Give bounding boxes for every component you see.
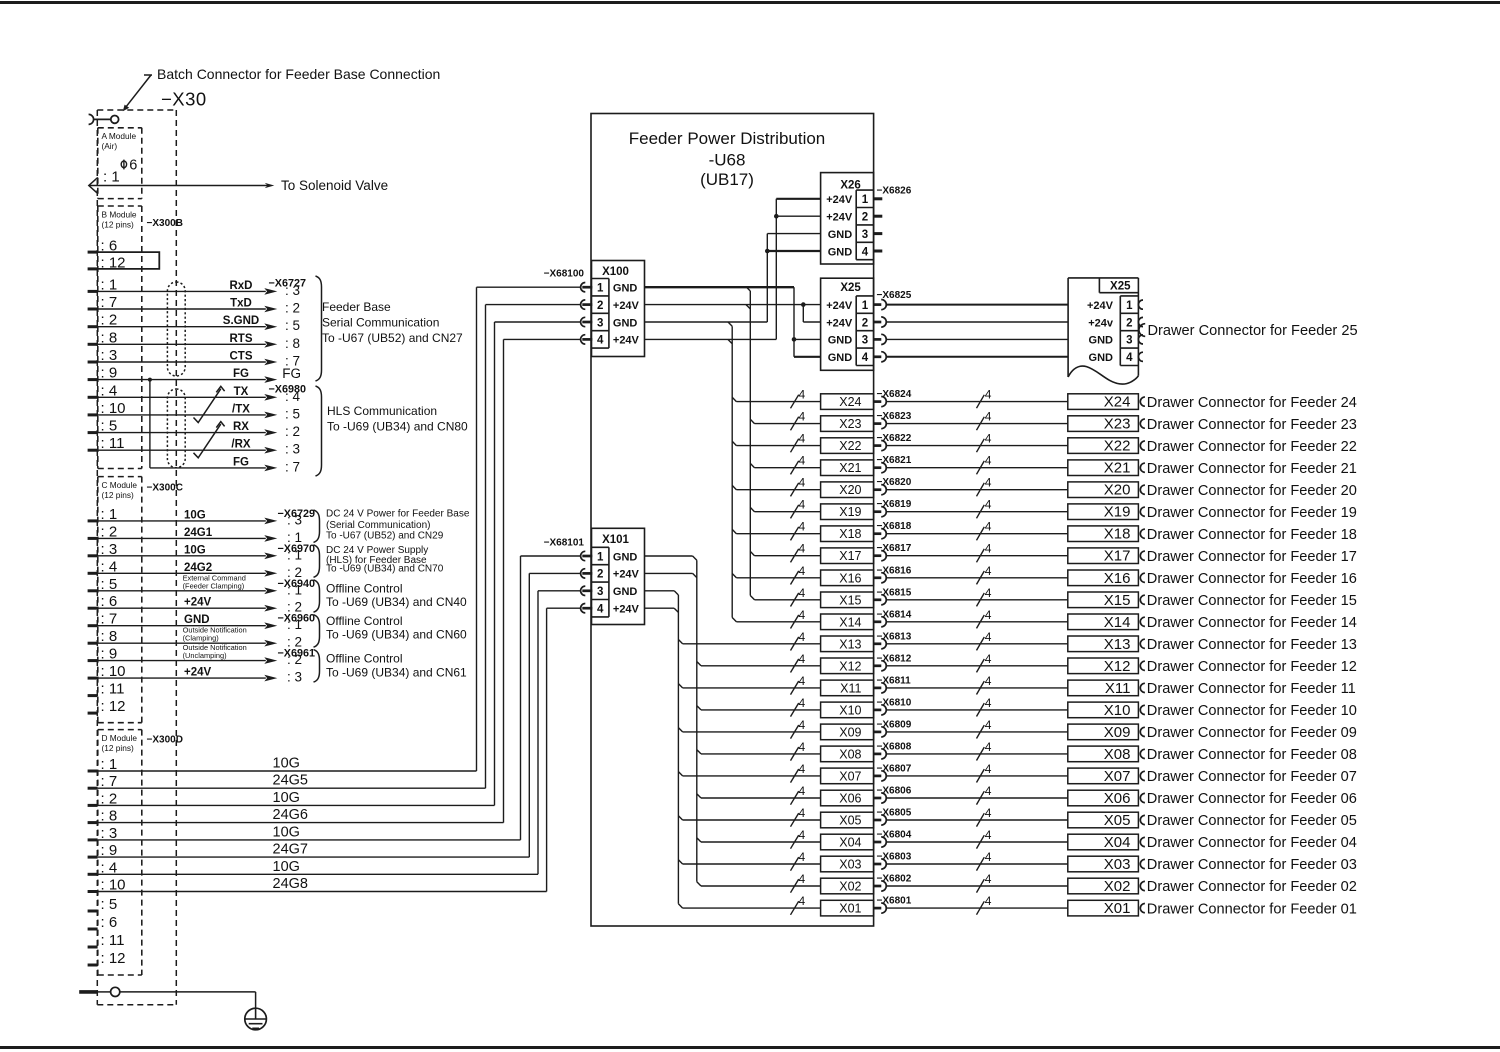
svg-text:X100: X100 <box>602 266 629 278</box>
svg-text:4: 4 <box>799 806 806 820</box>
svg-text:GND: GND <box>613 317 638 329</box>
svg-text:X06: X06 <box>839 792 861 806</box>
svg-text:X08: X08 <box>839 747 861 761</box>
svg-text:X12: X12 <box>1104 658 1131 675</box>
svg-text:−X6814: −X6814 <box>877 609 912 620</box>
svg-text:: 5: : 5 <box>101 418 118 435</box>
svg-text:X14: X14 <box>1104 614 1131 631</box>
svg-text:To -U69 (UB34) and CN40: To -U69 (UB34) and CN40 <box>326 595 467 609</box>
svg-text:2: 2 <box>862 212 868 224</box>
svg-text:24G8: 24G8 <box>273 876 308 892</box>
svg-text:Drawer Connector for Feeder 18: Drawer Connector for Feeder 18 <box>1147 527 1357 543</box>
svg-text:4: 4 <box>799 564 806 578</box>
svg-text:X20: X20 <box>839 483 861 497</box>
svg-text:Drawer Connector for Feeder 13: Drawer Connector for Feeder 13 <box>1147 637 1357 653</box>
svg-text:+24V: +24V <box>826 300 853 312</box>
svg-text:4: 4 <box>799 872 806 886</box>
svg-text:24G5: 24G5 <box>273 773 308 789</box>
svg-text:: 2: : 2 <box>101 312 118 329</box>
svg-text:2: 2 <box>597 300 603 312</box>
svg-text:−X6821: −X6821 <box>877 455 912 466</box>
svg-text:GND: GND <box>613 586 638 598</box>
svg-text:: 7: : 7 <box>101 773 118 790</box>
svg-text:(12 pins): (12 pins) <box>102 743 135 753</box>
svg-text:1: 1 <box>597 551 604 563</box>
svg-text:X16: X16 <box>839 571 861 585</box>
svg-text:4: 4 <box>799 894 806 908</box>
svg-text:C Module: C Module <box>102 480 138 490</box>
svg-text:24G2: 24G2 <box>184 562 212 574</box>
svg-text:X16: X16 <box>1104 570 1131 587</box>
svg-text:4: 4 <box>799 718 806 732</box>
svg-text:GND: GND <box>1089 335 1114 347</box>
svg-text:Drawer Connector for Feeder 07: Drawer Connector for Feeder 07 <box>1147 769 1357 785</box>
svg-text:X18: X18 <box>1104 526 1131 543</box>
svg-text:−X6823: −X6823 <box>877 411 912 422</box>
svg-text:Drawer Connector for Feeder 03: Drawer Connector for Feeder 03 <box>1147 857 1357 873</box>
svg-text:FG: FG <box>282 366 301 381</box>
svg-text:: 2: : 2 <box>101 523 118 540</box>
svg-text:−X6819: −X6819 <box>877 499 912 510</box>
svg-text:: 8: : 8 <box>101 329 118 346</box>
svg-text:4: 4 <box>985 454 992 468</box>
svg-text:X26: X26 <box>840 179 860 191</box>
svg-text:: 2: : 2 <box>285 424 300 439</box>
svg-text:−X6817: −X6817 <box>877 543 912 554</box>
svg-text:X15: X15 <box>839 593 861 607</box>
svg-text:X12: X12 <box>839 659 861 673</box>
svg-text:To -U69 (UB34) and CN60: To -U69 (UB34) and CN60 <box>326 628 467 642</box>
svg-text:−X6818: −X6818 <box>877 521 912 532</box>
svg-text:: 5: : 5 <box>101 576 118 593</box>
svg-text:Drawer Connector for Feeder 19: Drawer Connector for Feeder 19 <box>1147 505 1357 521</box>
svg-text:+24V: +24V <box>613 335 640 347</box>
svg-text:X19: X19 <box>839 505 861 519</box>
svg-text:4: 4 <box>985 630 992 644</box>
svg-text:Offline Control: Offline Control <box>326 651 402 665</box>
svg-text:Drawer Connector for Feeder 25: Drawer Connector for Feeder 25 <box>1148 323 1358 339</box>
svg-text:To Solenoid Valve: To Solenoid Valve <box>281 178 388 193</box>
svg-text:: 3: : 3 <box>285 442 300 457</box>
svg-text:: 6: : 6 <box>101 914 118 931</box>
svg-text:4: 4 <box>799 410 806 424</box>
svg-text:−X6810: −X6810 <box>877 697 912 708</box>
svg-text:FG: FG <box>233 456 249 468</box>
svg-text:GND: GND <box>828 229 853 241</box>
svg-text:(UB17): (UB17) <box>700 170 754 189</box>
svg-text:4: 4 <box>799 696 806 710</box>
svg-text:B Module: B Module <box>102 210 137 220</box>
svg-text:X03: X03 <box>839 858 861 872</box>
svg-text:4: 4 <box>799 498 806 512</box>
svg-text:: 12: : 12 <box>101 950 126 967</box>
svg-text:: 4: : 4 <box>101 859 118 876</box>
svg-text:4: 4 <box>985 498 992 512</box>
svg-text:X01: X01 <box>839 902 861 916</box>
svg-text:+24v: +24v <box>1088 317 1114 329</box>
svg-text:To -U69 (UB34) and CN80: To -U69 (UB34) and CN80 <box>327 420 468 434</box>
svg-text:4: 4 <box>1126 352 1133 364</box>
svg-text:X03: X03 <box>1104 856 1131 873</box>
svg-text:: 7: : 7 <box>101 294 118 311</box>
svg-text:4: 4 <box>799 630 806 644</box>
svg-text:X21: X21 <box>839 461 861 475</box>
svg-text:+24V: +24V <box>184 597 212 609</box>
svg-text:Offline Control: Offline Control <box>326 582 402 596</box>
svg-text:3: 3 <box>597 586 603 598</box>
svg-text:: 4: : 4 <box>101 382 118 399</box>
svg-text:10G: 10G <box>273 859 300 875</box>
svg-text:4: 4 <box>799 388 806 402</box>
svg-text:4: 4 <box>799 586 806 600</box>
svg-text:X05: X05 <box>839 814 861 828</box>
svg-text:4: 4 <box>799 784 806 798</box>
svg-text:1: 1 <box>597 283 604 295</box>
svg-text:Drawer Connector for Feeder 06: Drawer Connector for Feeder 06 <box>1147 791 1357 807</box>
svg-text:3: 3 <box>1126 335 1132 347</box>
svg-text:Drawer Connector for Feeder 20: Drawer Connector for Feeder 20 <box>1147 483 1357 499</box>
svg-text:To -U69 (UB34) and CN61: To -U69 (UB34) and CN61 <box>326 665 467 679</box>
svg-text:: 9: : 9 <box>101 365 118 382</box>
svg-text:: 6: : 6 <box>101 593 118 610</box>
svg-text:HLS Communication: HLS Communication <box>327 404 437 418</box>
svg-text:/RX: /RX <box>231 439 251 451</box>
svg-text:Drawer Connector for Feeder 12: Drawer Connector for Feeder 12 <box>1147 659 1357 675</box>
svg-text:4: 4 <box>985 410 992 424</box>
svg-text:4: 4 <box>985 564 992 578</box>
svg-text:: 9: : 9 <box>101 842 118 859</box>
svg-text:(Clamping): (Clamping) <box>183 634 219 643</box>
svg-text:RX: RX <box>233 421 249 433</box>
svg-text:-U68: -U68 <box>709 151 746 170</box>
svg-text:+24V: +24V <box>613 300 640 312</box>
svg-text:: 4: : 4 <box>285 389 301 404</box>
svg-text:: 3: : 3 <box>285 283 300 298</box>
svg-text:+24V: +24V <box>826 317 853 329</box>
svg-text:4: 4 <box>985 696 992 710</box>
svg-text:Serial Communication: Serial Communication <box>322 316 439 330</box>
svg-text:4: 4 <box>799 520 806 534</box>
svg-text:X19: X19 <box>1104 504 1131 521</box>
svg-text:Drawer Connector for Feeder 10: Drawer Connector for Feeder 10 <box>1147 703 1357 719</box>
svg-text:X14: X14 <box>839 615 861 629</box>
svg-text:(Unclamping): (Unclamping) <box>183 651 227 660</box>
svg-text:: 8: : 8 <box>101 628 118 645</box>
svg-text:: 2: : 2 <box>287 652 302 667</box>
svg-text:Drawer Connector for Feeder 05: Drawer Connector for Feeder 05 <box>1147 813 1357 829</box>
svg-text:: 3: : 3 <box>287 670 302 685</box>
svg-text:RxD: RxD <box>229 280 252 292</box>
svg-text:−X6816: −X6816 <box>877 565 912 576</box>
svg-text:2: 2 <box>1126 317 1132 329</box>
svg-text:GND: GND <box>828 246 853 258</box>
svg-text:X08: X08 <box>1104 746 1131 763</box>
svg-text:2: 2 <box>862 317 868 329</box>
svg-text:4: 4 <box>985 608 992 622</box>
svg-text:Drawer Connector for Feeder 21: Drawer Connector for Feeder 21 <box>1147 461 1357 477</box>
svg-text:X20: X20 <box>1104 482 1131 499</box>
svg-text:4: 4 <box>799 850 806 864</box>
svg-text:4: 4 <box>985 718 992 732</box>
svg-text:: 3: : 3 <box>101 541 118 558</box>
svg-text:: 8: : 8 <box>285 336 300 351</box>
svg-text:1: 1 <box>1126 300 1133 312</box>
svg-text:+24V: +24V <box>826 194 853 206</box>
svg-text:GND: GND <box>828 352 853 364</box>
svg-text:X11: X11 <box>1105 680 1131 697</box>
svg-text:X13: X13 <box>839 637 861 651</box>
svg-text:4: 4 <box>597 335 604 347</box>
svg-text:: 7: : 7 <box>101 611 118 628</box>
svg-text:Offline Control: Offline Control <box>326 614 402 628</box>
svg-text:4: 4 <box>985 432 992 446</box>
svg-text:: 1: : 1 <box>101 756 118 773</box>
svg-text:−X68101: −X68101 <box>544 537 585 548</box>
svg-text:: 3: : 3 <box>287 512 302 527</box>
svg-text:4: 4 <box>799 608 806 622</box>
svg-text:To -U67 (UB52) and CN29: To -U67 (UB52) and CN29 <box>326 530 444 541</box>
svg-text:: 10: : 10 <box>101 400 126 417</box>
svg-text:4: 4 <box>799 740 806 754</box>
svg-text:: 10: : 10 <box>101 877 126 894</box>
svg-text:−X6801: −X6801 <box>877 896 912 907</box>
svg-text:1: 1 <box>862 300 869 312</box>
svg-text:A Module: A Module <box>102 131 137 141</box>
svg-text:−X300D: −X300D <box>147 735 183 746</box>
svg-text:GND: GND <box>828 335 853 347</box>
svg-text:X10: X10 <box>839 703 861 717</box>
svg-text:X24: X24 <box>839 395 861 409</box>
svg-text:4: 4 <box>985 476 992 490</box>
svg-text:+24V: +24V <box>184 667 212 679</box>
svg-text:3: 3 <box>862 229 868 241</box>
svg-text:4: 4 <box>985 740 992 754</box>
svg-text:/TX: /TX <box>232 403 250 415</box>
svg-text:4: 4 <box>985 762 992 776</box>
svg-text:: 1: : 1 <box>101 506 118 523</box>
svg-text:4: 4 <box>799 828 806 842</box>
svg-text:: 10: : 10 <box>101 663 126 680</box>
svg-text:X24: X24 <box>1104 394 1131 411</box>
svg-text:(12 pins): (12 pins) <box>102 219 135 229</box>
svg-text:: 1: : 1 <box>287 617 302 632</box>
svg-text:X21: X21 <box>1104 460 1131 477</box>
svg-text:4: 4 <box>985 894 992 908</box>
svg-text:−X6809: −X6809 <box>877 719 912 730</box>
svg-text:: 5: : 5 <box>285 318 300 333</box>
svg-text:: 11: : 11 <box>101 681 125 698</box>
svg-text:Drawer Connector for Feeder 22: Drawer Connector for Feeder 22 <box>1147 439 1357 455</box>
svg-text:TX: TX <box>234 386 249 398</box>
svg-text:Drawer Connector for Feeder 15: Drawer Connector for Feeder 15 <box>1147 593 1357 609</box>
svg-text:Drawer Connector for Feeder 23: Drawer Connector for Feeder 23 <box>1147 417 1357 433</box>
svg-text:: 5: : 5 <box>101 896 118 913</box>
svg-text:: 4: : 4 <box>101 558 118 575</box>
svg-text:4: 4 <box>597 604 604 616</box>
svg-text:X10: X10 <box>1104 702 1131 719</box>
svg-text:: 2: : 2 <box>101 790 118 807</box>
svg-text:X11: X11 <box>840 681 861 695</box>
svg-text:: 3: : 3 <box>101 825 118 842</box>
svg-text:: 1: : 1 <box>287 547 302 562</box>
svg-text:: 8: : 8 <box>101 808 118 825</box>
svg-text:−X6824: −X6824 <box>877 389 912 400</box>
svg-text:4: 4 <box>985 674 992 688</box>
svg-text:: 11: : 11 <box>101 435 125 452</box>
svg-text:GND: GND <box>613 283 638 295</box>
svg-text:X07: X07 <box>839 769 861 783</box>
svg-text:Feeder Power Distribution: Feeder Power Distribution <box>629 129 826 148</box>
svg-text:GND: GND <box>184 614 210 626</box>
svg-text:4: 4 <box>799 476 806 490</box>
svg-text:DC 24 V Power for Feeder Base: DC 24 V Power for Feeder Base <box>326 508 470 519</box>
svg-text:4: 4 <box>799 674 806 688</box>
svg-text:: 1: : 1 <box>287 582 302 597</box>
svg-text:−X6811: −X6811 <box>877 675 912 686</box>
svg-text:4: 4 <box>985 806 992 820</box>
svg-text:X101: X101 <box>602 534 629 546</box>
svg-text:X25: X25 <box>840 282 861 294</box>
svg-text:: 1: : 1 <box>101 276 118 293</box>
svg-text:(Air): (Air) <box>102 141 118 151</box>
svg-text:Drawer Connector for Feeder 08: Drawer Connector for Feeder 08 <box>1147 747 1357 763</box>
svg-text:X22: X22 <box>839 439 861 453</box>
svg-text:−X6808: −X6808 <box>877 741 912 752</box>
svg-text:+24V: +24V <box>826 212 853 224</box>
svg-text:X04: X04 <box>1104 834 1131 851</box>
svg-text:10G: 10G <box>184 509 206 521</box>
svg-text:4: 4 <box>985 828 992 842</box>
svg-text:−X6805: −X6805 <box>877 808 912 819</box>
svg-text:4: 4 <box>985 520 992 534</box>
svg-text:−X6826: −X6826 <box>877 186 912 197</box>
svg-text:X04: X04 <box>839 836 861 850</box>
svg-text:−X6815: −X6815 <box>877 587 912 598</box>
svg-text:Drawer Connector for Feeder 11: Drawer Connector for Feeder 11 <box>1147 681 1356 697</box>
svg-text:X15: X15 <box>1104 592 1131 609</box>
svg-text:−X6803: −X6803 <box>877 852 912 863</box>
svg-text:: 11: : 11 <box>101 932 125 949</box>
svg-text:: 1: : 1 <box>103 169 120 186</box>
svg-text:4: 4 <box>985 872 992 886</box>
svg-text:−X6813: −X6813 <box>877 631 912 642</box>
svg-text:Drawer Connector for Feeder 24: Drawer Connector for Feeder 24 <box>1147 395 1357 411</box>
svg-text:−X300C: −X300C <box>147 483 183 494</box>
svg-text:10G: 10G <box>273 756 300 772</box>
svg-text:−X30: −X30 <box>161 89 207 110</box>
svg-text:−X6822: −X6822 <box>877 433 912 444</box>
svg-text:(Feeder Clamping): (Feeder Clamping) <box>183 581 245 590</box>
svg-text:S.GND: S.GND <box>223 315 259 327</box>
svg-text:+24V: +24V <box>1087 300 1114 312</box>
svg-text:10G: 10G <box>273 790 300 806</box>
svg-text:X09: X09 <box>1104 724 1131 741</box>
svg-text:24G7: 24G7 <box>273 842 308 858</box>
svg-text:4: 4 <box>799 454 806 468</box>
svg-text:−X6825: −X6825 <box>877 290 912 301</box>
svg-text:X02: X02 <box>839 880 861 894</box>
svg-text:4: 4 <box>862 352 869 364</box>
svg-text:3: 3 <box>597 317 603 329</box>
svg-text:X13: X13 <box>1104 636 1131 653</box>
svg-text:3: 3 <box>862 335 868 347</box>
svg-text:24G6: 24G6 <box>273 807 308 823</box>
svg-text:(12 pins): (12 pins) <box>102 490 135 500</box>
svg-text:6: 6 <box>129 158 137 174</box>
svg-text:4: 4 <box>862 246 869 258</box>
svg-text:X07: X07 <box>1104 768 1131 785</box>
svg-text:: 9: : 9 <box>101 646 118 663</box>
svg-text:Drawer Connector for Feeder 17: Drawer Connector for Feeder 17 <box>1147 549 1357 565</box>
svg-text:4: 4 <box>799 762 806 776</box>
svg-text:X17: X17 <box>839 549 861 563</box>
svg-text:RTS: RTS <box>230 333 253 345</box>
svg-text:10G: 10G <box>273 824 300 840</box>
svg-text:FG: FG <box>233 368 249 380</box>
svg-text:4: 4 <box>985 586 992 600</box>
svg-text:Drawer Connector for Feeder 14: Drawer Connector for Feeder 14 <box>1147 615 1357 631</box>
svg-text:To -U67 (UB52) and CN27: To -U67 (UB52) and CN27 <box>322 331 463 345</box>
svg-text:1: 1 <box>862 194 869 206</box>
svg-text:4: 4 <box>799 652 806 666</box>
svg-text:4: 4 <box>985 784 992 798</box>
svg-text:Drawer Connector for Feeder 16: Drawer Connector for Feeder 16 <box>1147 571 1357 587</box>
svg-text:−X6806: −X6806 <box>877 786 912 797</box>
svg-text:4: 4 <box>799 542 806 556</box>
svg-text:Drawer Connector for Feeder 01: Drawer Connector for Feeder 01 <box>1147 901 1357 917</box>
svg-text:D Module: D Module <box>102 733 138 743</box>
svg-text:X25: X25 <box>1110 281 1131 293</box>
svg-text:: 3: : 3 <box>101 347 118 364</box>
svg-text:X01: X01 <box>1104 900 1131 917</box>
svg-text:−X300B: −X300B <box>147 218 183 229</box>
svg-text:X09: X09 <box>839 725 861 739</box>
svg-text:Drawer Connector for Feeder 04: Drawer Connector for Feeder 04 <box>1147 835 1357 851</box>
svg-text:To -U69 (UB34) and CN70: To -U69 (UB34) and CN70 <box>326 563 444 574</box>
svg-text:X06: X06 <box>1104 790 1131 807</box>
svg-text:: 2: : 2 <box>285 301 300 316</box>
svg-text:4: 4 <box>799 432 806 446</box>
svg-text:+24V: +24V <box>613 604 640 616</box>
svg-text:4: 4 <box>985 388 992 402</box>
svg-text:X22: X22 <box>1104 438 1131 455</box>
svg-text:X02: X02 <box>1104 878 1131 895</box>
svg-text:X17: X17 <box>1104 548 1131 565</box>
svg-text:−X68100: −X68100 <box>544 269 585 280</box>
svg-text:Drawer Connector for Feeder 09: Drawer Connector for Feeder 09 <box>1147 725 1357 741</box>
svg-text:TxD: TxD <box>230 298 252 310</box>
svg-text:24G1: 24G1 <box>184 527 213 539</box>
svg-text:CTS: CTS <box>230 351 253 363</box>
svg-text:X23: X23 <box>839 417 861 431</box>
svg-text:4: 4 <box>985 850 992 864</box>
svg-text:+24V: +24V <box>613 569 640 581</box>
svg-text:4: 4 <box>985 652 992 666</box>
svg-text:−X6807: −X6807 <box>877 763 912 774</box>
svg-text:−X6812: −X6812 <box>877 653 912 664</box>
svg-text:GND: GND <box>1089 352 1114 364</box>
svg-text:−X6802: −X6802 <box>877 874 912 885</box>
svg-text:−X6820: −X6820 <box>877 477 912 488</box>
svg-text:Drawer Connector for Feeder 02: Drawer Connector for Feeder 02 <box>1147 879 1357 895</box>
svg-text:X18: X18 <box>839 527 861 541</box>
svg-text:Feeder Base: Feeder Base <box>322 300 391 314</box>
svg-text:: 12: : 12 <box>101 698 126 715</box>
svg-text:: 5: : 5 <box>285 406 300 421</box>
svg-text:2: 2 <box>597 569 603 581</box>
svg-text:X23: X23 <box>1104 416 1131 433</box>
svg-text:Batch Connector for Feeder Bas: Batch Connector for Feeder Base Connecti… <box>157 66 440 82</box>
